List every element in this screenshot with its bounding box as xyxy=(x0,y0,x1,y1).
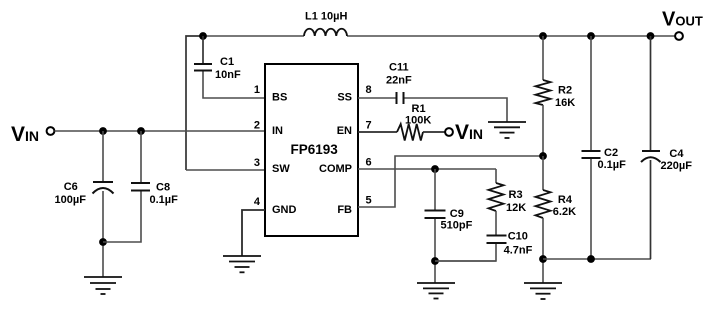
svg-text:100K: 100K xyxy=(405,115,431,127)
svg-text:C1: C1 xyxy=(220,56,234,68)
node SW/C1 junction xyxy=(199,32,207,40)
node bottom rail R4 xyxy=(539,255,547,263)
terminal VIN input xyxy=(47,127,55,135)
svg-text:2: 2 xyxy=(254,120,260,132)
svg-text:22nF: 22nF xyxy=(386,75,412,87)
wire COMP pin to R3 xyxy=(358,168,496,170)
node FB divider junction xyxy=(539,152,547,160)
resistor R2 xyxy=(536,80,551,105)
node top rail R2 xyxy=(539,32,547,40)
wire C4 top lead xyxy=(650,36,652,150)
resistor R3 xyxy=(489,183,504,211)
svg-text:R2: R2 xyxy=(558,85,572,97)
svg-text:4.7nF: 4.7nF xyxy=(504,245,533,257)
resistor R1 xyxy=(397,124,423,141)
wire C8 bottom lead xyxy=(103,192,141,243)
svg-text:1: 1 xyxy=(254,84,260,96)
svg-text:12K: 12K xyxy=(506,202,526,214)
capacitor C6 (polarized) xyxy=(93,182,114,194)
svg-text:C11: C11 xyxy=(389,62,409,74)
terminal VIN enable xyxy=(445,128,453,136)
wire C1 top lead xyxy=(202,36,204,63)
svg-text:R4: R4 xyxy=(558,194,573,206)
node C9/C10 bottom junction xyxy=(431,257,439,265)
wire C11 to ground riser xyxy=(405,98,508,122)
node VIN/C8 junction xyxy=(137,127,145,135)
svg-text:C10: C10 xyxy=(508,231,528,243)
capacitor C10 xyxy=(487,236,507,244)
svg-text:VOUT: VOUT xyxy=(662,9,703,31)
svg-text:VIN: VIN xyxy=(11,123,39,146)
svg-text:7: 7 xyxy=(366,120,372,132)
svg-text:6.2K: 6.2K xyxy=(553,206,576,218)
wire GND pin to ground xyxy=(242,210,265,256)
wire R3 to C10 xyxy=(495,211,497,235)
svg-text:C2: C2 xyxy=(604,147,618,159)
wire top rail left segment (C1 node to L1) xyxy=(203,35,304,37)
node VIN/C6 junction xyxy=(99,127,107,135)
node bottom rail C2 xyxy=(587,255,595,263)
ground under C9 xyxy=(417,283,455,299)
resistor R4 xyxy=(536,190,551,218)
capacitor C9 xyxy=(425,211,446,219)
capacitor C4 (polarized) xyxy=(641,151,661,162)
wire bottom rail C9 to C10 xyxy=(435,260,496,262)
wire C10 bottom lead xyxy=(435,244,496,261)
wire SS pin to C11 xyxy=(358,97,396,99)
svg-text:510pF: 510pF xyxy=(441,220,473,232)
wire C2 bottom lead xyxy=(590,159,592,259)
node top rail C4 xyxy=(647,32,655,40)
wire top rail right segment (L1 to VOUT) xyxy=(347,35,675,37)
svg-text:8: 8 xyxy=(366,84,372,96)
svg-text:FP6193: FP6193 xyxy=(291,142,339,157)
wire C9 top lead xyxy=(434,169,436,210)
wire C8 top lead xyxy=(140,131,142,182)
wire bottom right rail xyxy=(543,258,651,260)
svg-text:SS: SS xyxy=(337,92,352,104)
svg-text:5: 5 xyxy=(366,195,372,207)
wire SW pin to riser xyxy=(186,169,265,171)
svg-text:FB: FB xyxy=(337,204,352,216)
wire R2 bottom lead xyxy=(542,105,544,156)
ground under GND pin xyxy=(223,256,261,272)
svg-text:10nF: 10nF xyxy=(215,69,241,81)
svg-text:EN: EN xyxy=(337,125,352,137)
wire C4 bottom lead xyxy=(650,160,652,259)
svg-text:C6: C6 xyxy=(64,181,78,193)
svg-text:220µF: 220µF xyxy=(661,160,693,172)
svg-text:C9: C9 xyxy=(450,208,464,220)
svg-text:GND: GND xyxy=(272,204,297,216)
wire C9 bottom lead to ground xyxy=(434,219,436,283)
wire R2 top lead xyxy=(542,36,544,80)
wire R3 top lead xyxy=(495,169,497,183)
svg-text:COMP: COMP xyxy=(319,163,352,175)
svg-text:L1 10µH: L1 10µH xyxy=(305,11,347,23)
svg-text:100µF: 100µF xyxy=(55,194,87,206)
capacitor C1 xyxy=(194,64,212,71)
wire C2 top lead xyxy=(590,36,592,150)
ground under R4 xyxy=(524,283,562,299)
capacitor C2 xyxy=(582,151,601,158)
wire C6 top lead xyxy=(102,131,104,181)
inductor L1 xyxy=(304,29,347,36)
node COMP/C9 junction xyxy=(431,165,439,173)
ground under C6 xyxy=(84,277,122,294)
terminal VOUT xyxy=(675,32,683,40)
wire C6 bottom lead to ground xyxy=(102,191,104,277)
wire R1 to VIN terminal xyxy=(423,131,445,133)
capacitor C8 xyxy=(131,183,150,191)
wire EN pin to R1 xyxy=(358,131,397,133)
svg-text:C4: C4 xyxy=(669,148,684,160)
wire R4 bottom lead to ground xyxy=(542,218,544,283)
svg-text:0.1µF: 0.1µF xyxy=(150,194,179,206)
svg-text:0.1µF: 0.1µF xyxy=(598,159,627,171)
node C6/C8 bottom junction xyxy=(99,238,107,246)
svg-text:IN: IN xyxy=(272,125,283,137)
svg-text:C8: C8 xyxy=(156,182,170,194)
svg-text:BS: BS xyxy=(272,92,287,104)
svg-text:SW: SW xyxy=(272,163,290,175)
svg-text:4: 4 xyxy=(254,196,261,208)
wire SW riser and top-left corner xyxy=(186,36,203,170)
svg-text:16K: 16K xyxy=(555,97,575,109)
wire C1 bottom lead to BS pin xyxy=(203,72,265,99)
svg-text:6: 6 xyxy=(366,157,372,169)
ground under C11 xyxy=(488,122,526,138)
svg-text:R3: R3 xyxy=(509,189,523,201)
IC U1 FP6193 body xyxy=(265,64,358,236)
svg-text:R1: R1 xyxy=(412,103,426,115)
wire FB pin riser to divider xyxy=(358,156,543,207)
wire R4 top lead xyxy=(542,156,544,190)
svg-text:3: 3 xyxy=(254,157,260,169)
node top rail C2 xyxy=(587,32,595,40)
wire VIN to IN pin xyxy=(55,130,266,132)
svg-text:VIN: VIN xyxy=(455,121,483,144)
capacitor C11 xyxy=(397,92,404,104)
